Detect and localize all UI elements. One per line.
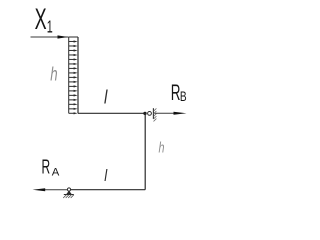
svg-text:R: R	[42, 157, 51, 179]
svg-text:h: h	[159, 139, 165, 156]
svg-text:X: X	[35, 3, 47, 36]
pin support A circle	[67, 188, 70, 191]
roller support B wall hatching	[154, 108, 157, 121]
left vertical member (column)	[77, 37, 79, 113]
roller support B circle	[148, 112, 152, 116]
pin support A ground line	[64, 194, 74, 196]
roller support B wall	[152, 108, 154, 119]
pin support A ground hatching	[63, 195, 74, 198]
distributed load arrowheads	[74, 40, 78, 114]
pin support A triangle	[66, 191, 72, 195]
right vertical member	[144, 113, 146, 189]
reaction label RA	[42, 157, 60, 179]
reaction arrow RB	[155, 112, 187, 115]
force arrow X1	[31, 35, 69, 38]
reaction label RB	[171, 79, 187, 104]
svg-text:R: R	[171, 79, 181, 104]
svg-text:h: h	[50, 64, 57, 85]
force label X1	[35, 3, 53, 37]
top horizontal member (beam)	[78, 112, 145, 114]
node joint B (dot)	[143, 112, 146, 115]
svg-text:A: A	[52, 166, 60, 178]
svg-text:B: B	[180, 89, 187, 105]
distributed load q on left column (ladder of arrows)	[69, 37, 78, 113]
reaction arrow RA	[33, 188, 68, 191]
bottom horizontal member	[69, 189, 145, 191]
svg-text:1: 1	[47, 18, 53, 37]
